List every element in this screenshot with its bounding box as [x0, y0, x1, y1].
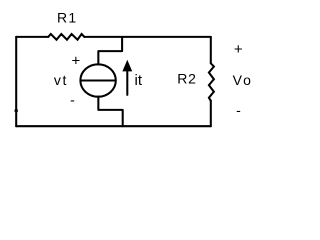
source vt chord [81, 79, 116, 81]
current arrow it shaft [126, 70, 128, 95]
current arrow it head [122, 60, 132, 72]
wire right branch lower lead [210, 101, 212, 126]
wire left branch [15, 37, 17, 126]
svg-text:+: + [234, 41, 243, 58]
source vt circle [80, 64, 115, 96]
svg-text:it: it [135, 72, 143, 89]
wire source bottom jog [98, 97, 122, 127]
wire right branch upper lead [210, 37, 212, 63]
svg-text:vt: vt [54, 72, 68, 88]
wire bottom [16, 125, 211, 127]
wire source top jog [98, 37, 122, 65]
svg-text:R1: R1 [57, 10, 77, 26]
node left-branch joint [15, 109, 18, 112]
resistor R2 [209, 63, 214, 101]
svg-text:-: - [70, 92, 75, 108]
resistor R1 [48, 34, 84, 40]
wire top-right segment [84, 36, 211, 38]
svg-text:R2: R2 [177, 70, 197, 86]
wire top-left lead [16, 36, 48, 38]
svg-text:+: + [72, 52, 81, 69]
svg-text:-: - [236, 102, 241, 118]
svg-text:Vo: Vo [233, 72, 253, 88]
